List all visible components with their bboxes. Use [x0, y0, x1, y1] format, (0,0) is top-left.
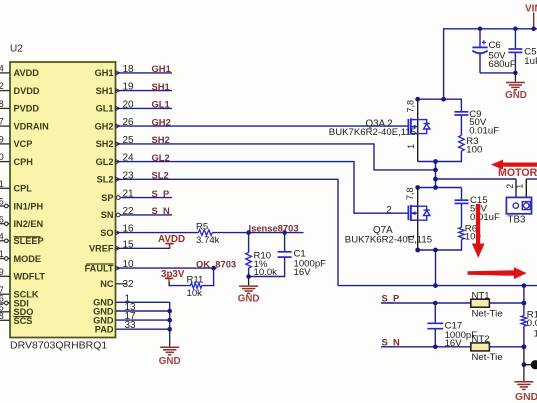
wire VIN rail: [444, 29, 537, 99]
junction S_P/C17: [433, 301, 438, 306]
svg-text:CPL: CPL: [14, 184, 33, 194]
svg-text:1uF: 1uF: [524, 56, 537, 67]
wire TB3 pin1 to edge: [526, 178, 537, 180]
svg-text:MOTORA: MOTORA: [498, 167, 537, 179]
wire R11 up to FAULT: [202, 268, 214, 286]
svg-text:VCP: VCP: [14, 139, 33, 149]
svg-text:3p3V: 3p3V: [161, 269, 185, 280]
wire MOTORA to TB3 pin2: [436, 178, 517, 180]
arrow right current: [468, 267, 527, 279]
IC U2 DRV8703QRHBRQ1 body: [10, 44, 116, 352]
junction Q7 drain tap: [433, 185, 438, 190]
junction FAULT/R11: [211, 266, 216, 271]
IC U2 right pin edge arrows: [116, 71, 121, 271]
junction Q7 drain corner: [415, 185, 420, 190]
transistor Q3A BUK7K6R2-40E,115: [329, 99, 430, 161]
node GH2 label: [152, 116, 171, 127]
svg-text:GL2: GL2: [152, 152, 170, 163]
wire Q7 source to shunt rail: [435, 250, 437, 286]
junction GND13: [167, 309, 172, 314]
svg-text:11: 11: [0, 249, 4, 259]
capacitor C6 680uF 50V electrolytic: [472, 29, 515, 73]
IC U2 left pin names: [14, 68, 50, 326]
junction Q7 source corner: [415, 248, 420, 253]
svg-text:IN2/EN: IN2/EN: [14, 219, 44, 229]
junction SO/R10: [246, 230, 251, 235]
node GL1 label: [152, 99, 170, 110]
svg-text:680uF: 680uF: [489, 59, 516, 70]
node S_N label at pin: [152, 205, 170, 216]
svg-text:SL2: SL2: [152, 170, 169, 181]
junction SO/C1: [282, 230, 287, 235]
IC U2 right pin numbers: [123, 64, 137, 331]
svg-text:PVDD: PVDD: [14, 104, 40, 114]
resistor R3 100: [418, 135, 483, 161]
node GH1 label: [152, 63, 171, 74]
resistor R11 10k: [187, 274, 204, 299]
junction shunt/S_P: [522, 301, 527, 306]
svg-text:SH1: SH1: [152, 81, 170, 92]
svg-text:8: 8: [0, 99, 4, 109]
svg-text:GND: GND: [515, 392, 537, 403]
node S_P bottom label: [382, 293, 400, 304]
junction SH2 tap: [433, 168, 438, 173]
svg-text:FAULT: FAULT: [85, 263, 114, 273]
svg-text:1: 1: [406, 144, 416, 149]
svg-text:DRV8703QRHBRQ1: DRV8703QRHBRQ1: [10, 340, 107, 352]
resistor R12 shunt: [521, 310, 537, 347]
node S_P label at pin: [152, 188, 170, 199]
IC U2 left pin stubs: [0, 73, 10, 320]
transistor Q7A BUK7K6R2-40E,115: [345, 187, 432, 250]
svg-text:R5: R5: [196, 221, 208, 232]
node VIN power flag: [525, 3, 537, 29]
svg-text:1: 1: [515, 184, 525, 189]
svg-text:MODE: MODE: [14, 254, 42, 264]
svg-text:SH2: SH2: [152, 134, 170, 145]
power flag 3p3V: [161, 269, 185, 282]
svg-text:BUK7K6R2-40E,115: BUK7K6R2-40E,115: [345, 234, 432, 245]
node OK_8703 label: [196, 258, 236, 269]
wire SH1 stub: [116, 90, 172, 92]
junction Q7 source: [433, 248, 438, 253]
arrow MOTORA: [491, 160, 537, 170]
svg-text:BUK7K6R2-40E,115: BUK7K6R2-40E,115: [329, 127, 416, 138]
wire shunt bottom to ground: [523, 347, 525, 365]
svg-text:1%: 1%: [534, 329, 537, 340]
ground symbol below IC: [159, 329, 181, 367]
junction VIN drop: [441, 97, 446, 102]
wire FAULT net: [116, 267, 217, 269]
IC U2 left pin circles: [5, 204, 9, 305]
svg-text:AVDD: AVDD: [14, 68, 40, 78]
svg-text:IN1/PH: IN1/PH: [14, 201, 44, 211]
svg-text:PAD: PAD: [95, 324, 114, 334]
wire S_N: [381, 346, 471, 348]
node SL2 label: [152, 170, 169, 181]
svg-text:SP: SP: [101, 193, 113, 203]
wire GL1 stub: [116, 107, 172, 109]
svg-text:S_P: S_P: [382, 293, 400, 304]
svg-text:SO: SO: [100, 228, 113, 238]
svg-text:S_N: S_N: [152, 205, 170, 216]
junction S_N/C17: [433, 345, 438, 350]
wire NT2 to shunt: [489, 346, 524, 348]
junction VIN/C5: [513, 27, 518, 32]
svg-text:DVDD: DVDD: [14, 86, 40, 96]
wire SN stub: [120, 214, 172, 216]
svg-text:29: 29: [0, 135, 4, 145]
svg-text:GL1: GL1: [152, 99, 170, 110]
wire Q3 drain node: [418, 99, 462, 111]
junction MOTORA tap: [433, 177, 438, 182]
wire SL2 down to shunt rail: [116, 179, 338, 285]
svg-text:TB3: TB3: [508, 215, 527, 226]
wire GH1 stub: [116, 72, 172, 74]
svg-text:SH2: SH2: [96, 139, 114, 149]
junction rail/Q7 source: [433, 283, 438, 288]
svg-text:4: 4: [0, 231, 4, 241]
svg-text:27: 27: [0, 117, 4, 127]
svg-text:2: 2: [386, 205, 391, 216]
svg-text:VREF: VREF: [89, 244, 114, 254]
svg-text:14: 14: [0, 64, 4, 74]
svg-text:5: 5: [0, 197, 4, 207]
connector TB3: [505, 179, 532, 226]
wire C6/C5 bottom: [480, 72, 515, 74]
arrow down current: [472, 204, 485, 258]
wire S_P: [381, 302, 471, 304]
node SH2 label: [152, 134, 170, 145]
net-tie NT1: [471, 290, 503, 319]
svg-text:SL2: SL2: [97, 175, 114, 185]
wire VREF to AVDD flag: [116, 244, 170, 249]
junction snubber/source: [433, 159, 438, 164]
svg-text:7,8: 7,8: [405, 100, 415, 113]
svg-text:CPH: CPH: [14, 157, 34, 167]
junction shunt/S_N: [522, 344, 527, 349]
wire NC stub: [116, 283, 127, 285]
node SH1 label: [152, 81, 170, 92]
wire GND pins to ground bus: [116, 302, 170, 329]
svg-text:U2: U2: [10, 44, 23, 55]
svg-text:OK_8703: OK_8703: [196, 258, 236, 269]
junction PAD: [167, 327, 172, 332]
svg-text:9: 9: [0, 267, 4, 277]
node MOTORA label: [498, 167, 537, 179]
junction ground node: [522, 362, 527, 367]
wire SO to R5: [116, 232, 198, 234]
svg-text:GH2: GH2: [152, 116, 171, 127]
ground symbol bottom right: [514, 365, 537, 403]
svg-text:0.01uF: 0.01uF: [469, 126, 499, 137]
svg-text:16V: 16V: [294, 267, 312, 278]
node GL2 label: [152, 152, 170, 163]
junction C5 ground: [513, 71, 518, 76]
IC U2 right pin names: [85, 68, 114, 334]
svg-text:VIN: VIN: [525, 3, 537, 14]
svg-text:SCS: SCS: [14, 316, 33, 326]
wire SH2 to switch node: [116, 144, 436, 170]
capacitor C17 1000pF 16V: [427, 303, 477, 349]
svg-text:30: 30: [0, 152, 4, 162]
svg-text:0.01uF: 0.01uF: [470, 212, 500, 223]
wire Q7 drain link: [418, 187, 436, 189]
wire NT1 to shunt: [489, 302, 524, 304]
capacitor C9 0.01uF 50V snubber: [454, 109, 499, 137]
svg-text:NC: NC: [100, 279, 114, 289]
svg-text:Net-Tie: Net-Tie: [472, 352, 503, 363]
net-tie NT2: [471, 334, 503, 363]
svg-text:GH2: GH2: [95, 121, 114, 131]
svg-text:Isense8703: Isense8703: [249, 222, 299, 233]
svg-text:31: 31: [0, 179, 4, 189]
svg-text:32: 32: [123, 279, 135, 290]
svg-text:SH1: SH1: [96, 86, 114, 96]
IC U2 left pin numbers (clipped at edge): [0, 64, 4, 321]
junction R10/C1 ground node: [246, 274, 251, 279]
svg-text:S_N: S_N: [382, 336, 400, 347]
svg-text:SLEEP: SLEEP: [14, 236, 44, 246]
wire shunt top: [523, 286, 525, 316]
wire R5 to Isense8703: [212, 232, 303, 234]
junction rail/shunt: [522, 283, 527, 288]
capacitor C1 1000pF 16V: [249, 233, 327, 278]
svg-text:12: 12: [0, 81, 4, 91]
svg-text:VDRAIN: VDRAIN: [14, 121, 50, 131]
svg-text:SN: SN: [101, 210, 114, 220]
junction VIN flag: [531, 27, 536, 32]
capacitor C15 0.01uF 50V snubber: [436, 188, 501, 228]
capacitor C5 1uF: [508, 29, 537, 73]
resistor R5 3.74k: [196, 221, 220, 246]
svg-text:GND: GND: [505, 90, 527, 101]
node Isense8703 label: [249, 222, 299, 233]
resistor R6 100: [418, 223, 481, 250]
svg-text:0.005: 0.005: [527, 318, 537, 329]
svg-text:GND: GND: [159, 356, 181, 367]
junction VIN/C6: [478, 27, 483, 32]
node S_N bottom label: [382, 336, 400, 347]
junction Q3 drain: [415, 97, 420, 102]
wire GH2 to Q3 gate: [116, 125, 408, 127]
wire SP stub: [120, 197, 172, 199]
svg-text:GND: GND: [238, 294, 260, 305]
svg-text:GH1: GH1: [95, 68, 114, 78]
svg-text:16V: 16V: [445, 338, 463, 349]
svg-text:10k: 10k: [187, 288, 203, 299]
ground symbol below R10: [238, 277, 260, 305]
svg-text:GL1: GL1: [96, 104, 114, 114]
ground symbol below C5: [505, 73, 527, 101]
svg-text:S_P: S_P: [152, 188, 170, 199]
svg-text:WDFLT: WDFLT: [14, 272, 46, 282]
power flag AVDD: [158, 234, 185, 248]
svg-text:7,8: 7,8: [405, 187, 415, 200]
svg-text:6: 6: [0, 214, 4, 224]
svg-text:AVDD: AVDD: [158, 234, 185, 245]
wire GL2 to Q7 gate: [116, 162, 408, 214]
svg-text:8: 8: [0, 311, 4, 321]
svg-text:3.74k: 3.74k: [196, 235, 220, 246]
wire shunt rail: [338, 285, 537, 287]
svg-text:GH1: GH1: [152, 63, 171, 74]
wire switch node column: [435, 162, 437, 188]
svg-text:Net-Tie: Net-Tie: [472, 308, 503, 319]
svg-text:100: 100: [466, 144, 482, 155]
wire stub to test point: [524, 364, 532, 366]
junction GND17: [167, 318, 172, 323]
svg-text:GL2: GL2: [96, 157, 114, 167]
resistor R10 10.0k 1%: [246, 233, 277, 278]
svg-text:R11: R11: [187, 274, 204, 285]
svg-text:1: 1: [406, 234, 416, 239]
test point black dot: [531, 360, 537, 369]
wire 3p3V to R11: [169, 282, 191, 286]
svg-text:2: 2: [505, 184, 515, 189]
